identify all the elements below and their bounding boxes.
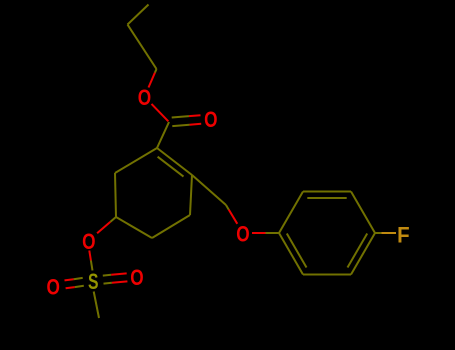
bond: CH2-O(ester) (155, 69, 157, 73)
bond: CH2-O ether (226, 205, 229, 210)
bond: ring C1=C2 edge (157, 148, 192, 175)
bond: S=O left double (74, 278, 83, 279)
bond: phenyl BL-L edge (279, 233, 303, 275)
bond: S=O right double (104, 282, 112, 285)
svg-text:S: S (88, 269, 99, 294)
bond: O-S (89, 251, 91, 261)
bond: ring C2 - CH2 benzyl (192, 175, 226, 205)
bond: phenyl TR-R edge (351, 192, 375, 234)
bond: ring C4-C5 edge (116, 217, 152, 238)
svg-text:O: O (82, 229, 95, 254)
svg-text:O: O (236, 222, 249, 247)
bond: ring C5-C6 edge (115, 173, 116, 217)
bond: ring C1=C2 inner double line (158, 157, 184, 177)
bond: ring C6-C1 edge (115, 148, 157, 173)
bond: propyl CH-CH2 (128, 25, 157, 70)
svg-text:F: F (397, 222, 410, 247)
svg-text:O: O (138, 85, 151, 110)
svg-text:O: O (47, 274, 60, 299)
bond: ring C2-C3 edge (190, 175, 192, 215)
svg-text:O: O (130, 265, 143, 290)
bond: O-phenyl (252, 232, 266, 234)
bond: S-CH3 (94, 292, 99, 319)
bond: O(ester)-C carbonyl (152, 104, 169, 121)
bond: phenyl TL-TR edge (303, 191, 351, 193)
bond: phenyl TL-TR inner double (307, 197, 346, 199)
bond: phenyl L-TL edge (279, 192, 303, 234)
bond: phenyl BR-BL edge (303, 274, 351, 276)
bond: phenyl R-BR inner double (348, 234, 368, 268)
bond: ring C5 - O mesylate (110, 217, 116, 222)
bond: ring C3-C4 edge (152, 215, 190, 238)
bond: phenyl-F (375, 232, 381, 234)
svg-text:O: O (204, 107, 217, 132)
bond: phenyl R-BR edge (351, 233, 375, 275)
bond: carbonyl C - ring C1 (157, 122, 169, 148)
bond: C=O carbonyl double (172, 125, 189, 126)
bond: phenyl BL-L inner double (287, 234, 307, 268)
bond: ester propyl terminal CH3 (128, 5, 149, 25)
